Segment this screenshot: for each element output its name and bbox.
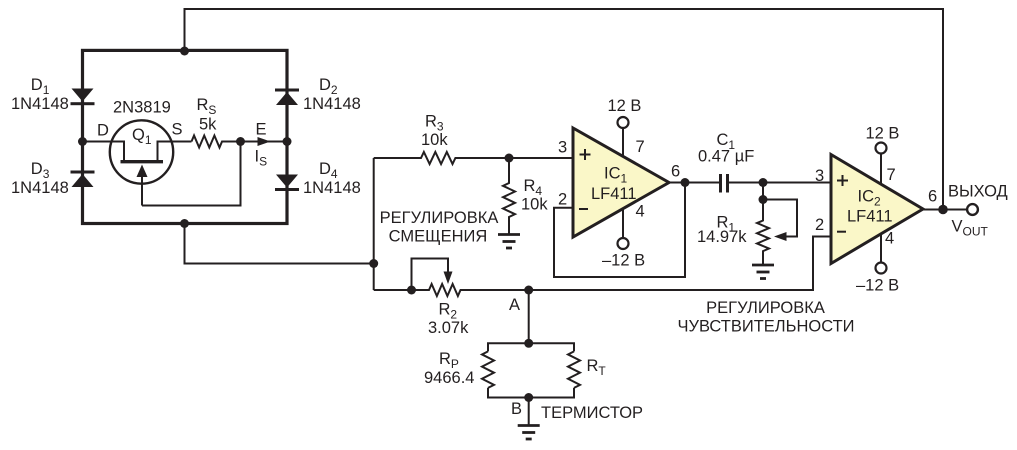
node: C1 right junction <box>759 178 768 187</box>
svg-text:–12 В: –12 В <box>602 252 645 270</box>
wire: IC2 pin 2 to sensitivity line <box>529 237 831 291</box>
svg-text:10k: 10k <box>421 131 448 149</box>
wire: node A to thermistor network <box>528 290 530 343</box>
svg-text:2N3819: 2N3819 <box>113 99 171 117</box>
svg-text:LF411: LF411 <box>847 208 893 226</box>
wire: vertical bias feed <box>373 158 375 290</box>
svg-text:RT: RT <box>587 357 607 378</box>
svg-text:6: 6 <box>928 188 937 206</box>
wire: IC2 output <box>923 209 967 211</box>
svg-text:0.47 µF: 0.47 µF <box>698 148 754 166</box>
svg-text:4: 4 <box>885 230 894 248</box>
svg-text:RP: RP <box>439 350 459 371</box>
transistor Q1 (2N3819 JFET) <box>83 120 192 205</box>
diode D4 <box>275 175 299 192</box>
svg-text:ВЫХОД: ВЫХОД <box>948 183 1008 201</box>
svg-text:ЧУВСТВИТЕЛЬНОСТИ: ЧУВСТВИТЕЛЬНОСТИ <box>677 318 854 336</box>
svg-text:3: 3 <box>815 167 824 185</box>
svg-text:IS: IS <box>255 148 268 169</box>
node A <box>524 286 533 295</box>
node B: thermistor bottom <box>524 393 533 402</box>
wire: gate loop to source node <box>142 142 241 206</box>
node: bias feed junction <box>369 259 378 268</box>
bridge frame <box>83 50 288 223</box>
svg-text:СМЕЩЕНИЯ: СМЕЩЕНИЯ <box>389 228 488 246</box>
svg-text:12 В: 12 В <box>608 97 642 115</box>
power -12V (IC1) <box>618 209 629 250</box>
svg-text:ТЕРМИСТОР: ТЕРМИСТОР <box>541 404 643 422</box>
svg-text:3.07k: 3.07k <box>428 319 469 337</box>
svg-text:1N4148: 1N4148 <box>303 179 361 197</box>
node E (right rail mid) <box>283 137 292 146</box>
op-amp U2 (IC2 LF411) <box>831 155 923 264</box>
resistor RS <box>192 136 241 148</box>
svg-text:D1: D1 <box>31 76 50 97</box>
current arrow IS <box>258 137 271 146</box>
svg-text:3: 3 <box>558 139 567 157</box>
svg-text:1N4148: 1N4148 <box>11 95 69 113</box>
svg-text:D4: D4 <box>319 160 338 181</box>
svg-text:D3: D3 <box>31 160 50 181</box>
wire: bridge bottom to bias feed <box>185 224 374 264</box>
wire: RS node to bridge E node <box>241 141 288 143</box>
node: thermistor top <box>524 339 533 348</box>
svg-text:RS: RS <box>197 96 217 117</box>
svg-text:4: 4 <box>636 203 645 221</box>
node: IC1 output <box>681 178 690 187</box>
wire: node B to ground <box>528 398 530 426</box>
svg-text:A: A <box>509 296 520 314</box>
node: bridge top junction <box>180 47 189 56</box>
svg-text:10k: 10k <box>521 196 548 214</box>
svg-text:12 В: 12 В <box>866 125 900 143</box>
power -12V (IC2) <box>876 234 887 274</box>
svg-text:РЕГУЛИРОВКА: РЕГУЛИРОВКА <box>706 299 825 317</box>
svg-text:LF411: LF411 <box>591 185 637 203</box>
ground (R1) <box>752 265 774 279</box>
op-amp U1 (IC1 LF411) <box>573 128 669 237</box>
wire: top feedback from bridge top to IC2 output <box>185 9 944 210</box>
wire: IC1 input pin 3 <box>509 157 573 159</box>
svg-text:VOUT: VOUT <box>952 218 989 239</box>
svg-text:B: B <box>511 400 522 418</box>
svg-text:РЕГУЛИРОВКА: РЕГУЛИРОВКА <box>380 209 499 227</box>
svg-text:2: 2 <box>815 216 824 234</box>
resistor R4 <box>503 158 515 235</box>
diode D1 <box>71 89 95 106</box>
ground (R4) <box>498 235 520 249</box>
svg-text:7: 7 <box>636 138 645 156</box>
power +12V (IC1) <box>618 117 629 157</box>
thermistor RT <box>568 351 580 387</box>
potentiometer R1 <box>757 183 797 266</box>
ground (B) <box>518 426 540 440</box>
svg-text:6: 6 <box>671 163 680 181</box>
svg-text:Q1: Q1 <box>132 126 152 147</box>
svg-text:E: E <box>256 121 267 139</box>
output terminal <box>967 204 978 215</box>
potentiometer R2 <box>374 259 529 297</box>
node: RS right junction <box>236 137 245 146</box>
resistor RP <box>482 351 494 387</box>
svg-text:2: 2 <box>558 191 567 209</box>
thermistor network frame <box>488 343 574 397</box>
svg-text:9466.4: 9466.4 <box>424 369 474 387</box>
resistor R3 <box>374 152 573 164</box>
diode D3 <box>71 171 95 188</box>
svg-text:D: D <box>97 122 109 140</box>
svg-text:1N4148: 1N4148 <box>303 95 361 113</box>
wire: C1 to IC2 pin 3 <box>729 182 831 184</box>
capacitor C1 <box>721 174 728 193</box>
svg-text:7: 7 <box>887 166 896 184</box>
svg-text:14.97k: 14.97k <box>697 228 747 246</box>
diode D2 <box>275 89 299 106</box>
svg-text:1N4148: 1N4148 <box>11 179 69 197</box>
node: bridge bottom junction <box>180 219 189 228</box>
wire: IC1 feedback loop pin2 to output <box>554 183 685 278</box>
node: R3/R4 junction <box>505 154 514 163</box>
node D (left rail mid) <box>78 137 87 146</box>
svg-text:5k: 5k <box>199 116 217 134</box>
svg-text:–12 В: –12 В <box>856 277 899 295</box>
svg-text:D2: D2 <box>319 76 338 97</box>
power +12V (IC2) <box>876 143 887 185</box>
svg-text:S: S <box>172 121 183 139</box>
wire: IC1 output <box>669 182 719 184</box>
node: IC2 output <box>938 205 948 215</box>
